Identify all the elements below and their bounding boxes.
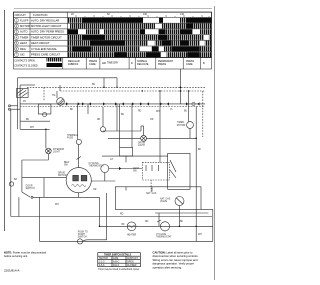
- svg-text:OR: OR: [93, 189, 97, 191]
- svg-text:MOTOR-LIGHT CIRCUIT: MOTOR-LIGHT CIRCUIT: [31, 24, 62, 28]
- svg-text:dangerous operation. Verify pr: dangerous operation. Verify proper: [153, 262, 194, 266]
- svg-text:CONTACT: CONTACT: [127, 257, 139, 260]
- svg-text:SW: SW: [64, 165, 69, 167]
- svg-text:SW: SW: [133, 171, 138, 173]
- svg-text:MOTOR: MOTOR: [58, 175, 67, 177]
- svg-text:FABRICS: FABRICS: [68, 63, 79, 66]
- svg-text:YL: YL: [170, 109, 174, 111]
- svg-text:1-2-3: 1-2-3: [99, 261, 105, 263]
- svg-text:OR: OR: [150, 119, 154, 121]
- svg-text:BU: BU: [26, 119, 30, 121]
- svg-text:disconnection when servicing c: disconnection when servicing controls.: [153, 254, 199, 258]
- svg-text:THERMOSTAT: THERMOSTAT: [156, 236, 172, 239]
- svg-text:BU: BU: [92, 84, 96, 86]
- svg-text:Timer may be timed in either/b: Timer may be timed in either/both cycles: [98, 268, 140, 271]
- svg-text:REG: REG: [20, 47, 26, 51]
- svg-text:WH: WH: [198, 234, 202, 236]
- svg-text:SWITCH: SWITCH: [78, 237, 87, 239]
- svg-text:FLUFF: FLUFF: [20, 18, 29, 22]
- svg-text:LIGHT: LIGHT: [138, 145, 145, 147]
- svg-text:HEAT CIRCUIT: HEAT CIRCUIT: [31, 41, 50, 45]
- svg-text:SWITCH: SWITCH: [26, 188, 35, 190]
- svg-text:CONTACTS CLOSED: CONTACTS CLOSED: [14, 64, 38, 67]
- svg-text:operation after servicing.: operation after servicing.: [153, 265, 183, 269]
- svg-text:SIG: SIG: [20, 53, 25, 57]
- svg-text:GY: GY: [110, 159, 114, 161]
- svg-text:SWITCH: SWITCH: [99, 258, 108, 260]
- svg-text:6: 6: [16, 47, 18, 51]
- svg-text:MOTOR: MOTOR: [20, 24, 30, 28]
- svg-text:VALVE: VALVE: [160, 200, 168, 203]
- svg-text:CAM: CAM: [113, 257, 118, 260]
- svg-text:WH: WH: [55, 204, 59, 206]
- svg-text:NAT. GAS: NAT. GAS: [146, 192, 157, 195]
- svg-text:NOTE: Power must be disconnect: NOTE: Power must be disconnected: [4, 251, 47, 255]
- svg-text:1: 1: [16, 18, 18, 22]
- svg-text:100: 100: [143, 13, 148, 16]
- svg-text:TIMER: TIMER: [177, 122, 184, 124]
- svg-text:before servicing unit.: before servicing unit.: [4, 254, 28, 258]
- svg-text:CARE: CARE: [89, 63, 96, 66]
- svg-text:OPEN: OPEN: [127, 261, 134, 263]
- svg-text:BK: BK: [70, 109, 74, 111]
- svg-text:TIMER MOTOR CIRCUIT: TIMER MOTOR CIRCUIT: [31, 35, 62, 39]
- svg-text:60: 60: [107, 13, 110, 16]
- svg-text:HEATER: HEATER: [127, 234, 136, 237]
- svg-text:AIR: AIR: [102, 62, 106, 65]
- svg-text:BZ: BZ: [14, 179, 18, 181]
- svg-text:TIME DRY: TIME DRY: [107, 62, 119, 65]
- svg-text:RD: RD: [120, 214, 124, 216]
- svg-text:4-5-6: 4-5-6: [99, 265, 105, 267]
- svg-text:DELICATE: DELICATE: [137, 63, 149, 66]
- svg-text:CAUTION: Label all wires prior: CAUTION: Label all wires prior to: [153, 251, 194, 255]
- svg-text:CONTACTS OPEN: CONTACTS OPEN: [14, 59, 35, 62]
- svg-text:PC: PC: [23, 101, 27, 103]
- svg-text:HEAT: HEAT: [20, 41, 27, 45]
- svg-text:BK: BK: [122, 224, 126, 226]
- svg-text:BU: BU: [184, 111, 188, 113]
- svg-text:LIGHT: LIGHT: [53, 152, 60, 154]
- svg-text:RD: RD: [138, 111, 142, 113]
- svg-text:MOTOR: MOTOR: [177, 125, 186, 127]
- svg-text:WH: WH: [30, 127, 34, 129]
- svg-text:TIMER SWITCH DETAILS: TIMER SWITCH DETAILS: [104, 254, 132, 257]
- svg-text:THERMOSTAT: THERMOSTAT: [89, 165, 105, 168]
- svg-text:5: 5: [16, 41, 18, 45]
- svg-text:2201/814-A: 2201/814-A: [4, 269, 20, 273]
- svg-text:3: 3: [16, 30, 18, 34]
- svg-text:CYCLE END SIGNAL: CYCLE END SIGNAL: [31, 47, 57, 51]
- svg-text:2: 2: [16, 24, 18, 28]
- svg-text:4: 4: [16, 35, 18, 39]
- svg-text:B: B: [203, 62, 205, 65]
- svg-text:RD: RD: [97, 119, 101, 121]
- svg-text:BK: BK: [198, 149, 202, 151]
- svg-text:140: 140: [180, 13, 185, 16]
- svg-text:D: D: [131, 62, 133, 65]
- svg-text:FUSE: FUSE: [67, 138, 74, 140]
- svg-text:TIMER: TIMER: [20, 35, 28, 39]
- svg-text:Wiring errors can cause improp: Wiring errors can cause improper and: [153, 258, 198, 262]
- svg-text:AUTO: AUTO: [20, 30, 27, 34]
- svg-text:FUNCTION: FUNCTION: [33, 13, 47, 17]
- svg-text:AUTO. DRY PERM PRESS: AUTO. DRY PERM PRESS: [31, 30, 64, 34]
- svg-text:BU: BU: [121, 114, 125, 116]
- svg-text:20: 20: [71, 13, 74, 16]
- svg-text:BK: BK: [180, 221, 184, 223]
- svg-text:CLOSED: CLOSED: [127, 265, 137, 267]
- svg-text:CARE: CARE: [186, 63, 193, 66]
- svg-text:D-E-F: D-E-F: [113, 265, 120, 267]
- svg-text:A-B-C: A-B-C: [113, 260, 120, 263]
- svg-text:RD: RD: [145, 221, 149, 223]
- svg-text:AUTO. DRY REGULAR: AUTO. DRY REGULAR: [31, 18, 59, 22]
- svg-text:CIRCUIT: CIRCUIT: [15, 13, 27, 17]
- svg-text:7: 7: [16, 53, 18, 57]
- svg-text:WH: WH: [156, 111, 160, 113]
- svg-text:PRESS: PRESS: [158, 63, 167, 66]
- svg-text:PRESS CARE CIRCUIT: PRESS CARE CIRCUIT: [31, 53, 60, 57]
- svg-text:TM: TM: [52, 95, 55, 97]
